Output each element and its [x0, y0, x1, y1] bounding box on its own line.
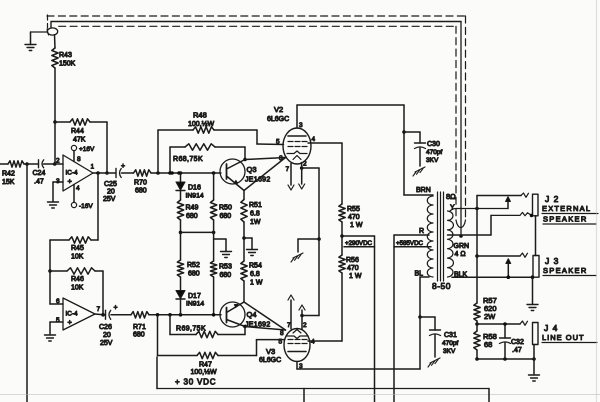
svg-text:+: +: [114, 305, 118, 312]
svg-text:470: 470: [348, 214, 360, 221]
svg-text:IC-4: IC-4: [66, 170, 79, 177]
svg-text:3: 3: [299, 122, 303, 129]
svg-text:4: 4: [311, 339, 315, 346]
svg-text:4 Ω: 4 Ω: [455, 251, 466, 258]
svg-text:3KV: 3KV: [443, 348, 456, 355]
svg-text:6.8: 6.8: [250, 271, 260, 278]
svg-text:C32: C32: [511, 339, 524, 346]
svg-text:680: 680: [135, 188, 147, 195]
svg-text:680: 680: [220, 213, 232, 220]
svg-text:+ 30 VDC: + 30 VDC: [175, 378, 216, 387]
svg-text:R69,75K: R69,75K: [176, 326, 206, 333]
svg-text:680: 680: [188, 271, 200, 278]
svg-text:R49: R49: [186, 205, 199, 212]
svg-text:470pf: 470pf: [442, 340, 458, 347]
svg-text:R55: R55: [347, 206, 360, 213]
svg-text:+: +: [68, 177, 73, 186]
svg-text:15K: 15K: [2, 179, 15, 186]
svg-text:J 2: J 2: [545, 194, 559, 204]
svg-text:C30: C30: [427, 141, 440, 148]
svg-text:25V: 25V: [103, 196, 116, 203]
svg-text:100,½W: 100,½W: [191, 368, 217, 376]
svg-text:680: 680: [186, 213, 198, 220]
svg-text:7: 7: [286, 166, 290, 173]
svg-text:5: 5: [276, 139, 280, 146]
svg-text:D17: D17: [188, 293, 201, 300]
svg-text:1W: 1W: [250, 219, 261, 226]
svg-text:20: 20: [107, 189, 115, 196]
svg-text:R53: R53: [219, 264, 232, 271]
svg-text:R47: R47: [199, 362, 212, 369]
svg-text:+: +: [68, 318, 73, 327]
svg-text:4: 4: [312, 136, 316, 143]
svg-text:1 W: 1 W: [349, 273, 362, 280]
svg-text:V2: V2: [274, 105, 283, 114]
svg-text:SPEAKER: SPEAKER: [543, 266, 588, 275]
svg-text:R46: R46: [71, 276, 84, 283]
svg-text:10K: 10K: [71, 285, 84, 292]
svg-text:R71: R71: [133, 324, 146, 331]
svg-text:4: 4: [76, 185, 80, 192]
svg-text:R70: R70: [134, 180, 147, 187]
svg-text:+: +: [121, 163, 125, 170]
svg-text:J 3: J 3: [545, 256, 559, 266]
svg-text:C31: C31: [444, 332, 457, 339]
svg-text:100,½W: 100,½W: [188, 120, 214, 128]
svg-text:3KV: 3KV: [426, 157, 439, 164]
svg-text:5: 5: [56, 317, 60, 324]
svg-text:8: 8: [280, 330, 284, 337]
svg-text:6L6GC: 6L6GC: [259, 357, 281, 364]
svg-text:.47: .47: [512, 347, 522, 354]
svg-text:SPEAKER: SPEAKER: [543, 215, 588, 224]
svg-text:D16: D16: [188, 185, 201, 192]
svg-text:68: 68: [484, 340, 492, 349]
svg-text:IC-4: IC-4: [66, 311, 79, 318]
svg-text:R52: R52: [187, 262, 200, 269]
svg-text:470pf: 470pf: [426, 149, 442, 156]
svg-text:Q3: Q3: [247, 165, 257, 174]
svg-text:680: 680: [220, 272, 232, 279]
svg-text:25V: 25V: [100, 340, 113, 347]
svg-text:LINE OUT: LINE OUT: [542, 333, 585, 342]
svg-text:.47: .47: [34, 179, 44, 186]
svg-text:8Ω: 8Ω: [446, 192, 456, 201]
svg-text:8: 8: [77, 156, 81, 163]
svg-text:2: 2: [56, 158, 60, 165]
svg-text:6L6GC: 6L6GC: [267, 116, 289, 123]
svg-text:-16V: -16V: [79, 203, 93, 210]
svg-text:1 W: 1 W: [350, 222, 363, 229]
svg-text:R45: R45: [71, 245, 84, 252]
svg-text:7: 7: [97, 306, 101, 313]
svg-text:J 4: J 4: [544, 323, 558, 333]
svg-text:8-50: 8-50: [432, 281, 451, 291]
svg-text:+16V: +16V: [79, 146, 95, 153]
svg-text:1: 1: [91, 164, 95, 171]
svg-text:V3: V3: [266, 347, 275, 356]
svg-text:Q4: Q4: [247, 310, 257, 319]
svg-text:150K: 150K: [59, 61, 76, 68]
svg-text:R: R: [419, 228, 424, 235]
svg-text:R51: R51: [249, 202, 262, 209]
svg-text:2: 2: [303, 322, 307, 329]
svg-text:R42: R42: [2, 171, 15, 178]
svg-text:20: 20: [103, 332, 111, 339]
svg-text:R54: R54: [249, 263, 262, 270]
svg-text:C24: C24: [33, 170, 46, 177]
svg-text:+585VDC: +585VDC: [396, 240, 424, 247]
svg-text:IN914: IN914: [186, 193, 204, 200]
svg-text:EXTERNAL: EXTERNAL: [542, 204, 591, 213]
svg-text:R56: R56: [346, 257, 359, 264]
svg-text:47K: 47K: [73, 137, 86, 144]
svg-text:R48: R48: [193, 111, 207, 120]
svg-text:R68,75K: R68,75K: [173, 156, 203, 163]
svg-text:C25: C25: [104, 181, 117, 188]
svg-text:GRN: GRN: [454, 243, 470, 250]
svg-text:C26: C26: [99, 324, 112, 331]
svg-text:470: 470: [347, 265, 359, 272]
svg-text:+290VDC: +290VDC: [345, 240, 373, 247]
svg-text:R44: R44: [71, 128, 84, 135]
svg-text:5: 5: [279, 339, 283, 346]
svg-text:R50: R50: [219, 205, 232, 212]
svg-text:2: 2: [303, 161, 307, 168]
svg-text:680: 680: [133, 332, 145, 339]
svg-text:1 W: 1 W: [250, 280, 263, 287]
svg-text:BRN: BRN: [416, 187, 431, 194]
svg-text:R43: R43: [59, 52, 72, 59]
svg-text:IN914: IN914: [186, 301, 204, 308]
svg-text:8: 8: [279, 155, 283, 162]
svg-text:6.8: 6.8: [250, 211, 260, 218]
svg-text:2W: 2W: [484, 312, 496, 321]
svg-text:BL: BL: [415, 271, 424, 278]
svg-text:10K: 10K: [71, 254, 84, 261]
